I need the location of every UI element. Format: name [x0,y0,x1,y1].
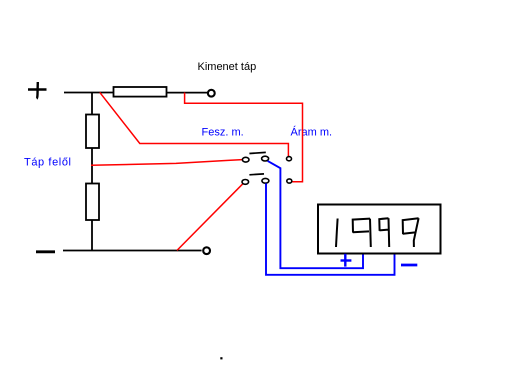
switch S2 lower: lever arm [249,173,264,176]
meter - polarity mark (blue) [401,264,417,267]
minus terminal symbol (-) bottom-left [36,250,55,253]
switch S2 lower: pole contact [242,180,249,185]
wire bottom rail [63,250,202,252]
svg-text:Táp felől: Táp felől [24,156,72,168]
resistor R_top (horizontal) [114,87,167,97]
resistor R1 (upper vertical) [86,115,99,149]
output terminal circle [208,90,215,97]
plus terminal symbol (+) top-left [28,82,47,99]
digit 9 second (hand drawn) [379,218,389,247]
wire resistor to output terminal [167,92,208,94]
switch S1 upper: common contact [262,156,269,161]
bottom terminal circle [203,247,210,254]
switch S1 upper: pole contact [242,157,249,162]
svg-text:Fesz. m.: Fesz. m. [202,127,244,139]
wire top: + rail to resistor [64,92,114,94]
red wire D: bottom rail to lower switch pole (diagonal) [177,184,243,251]
meter display box [318,205,441,254]
red wire B: output wire to current contact via Áram m. [185,93,303,182]
wire R2 to bottom rail [91,220,93,251]
digit 1 (hand drawn) [336,219,338,248]
meter + polarity mark (blue) [341,254,352,267]
svg-text:Áram m.: Áram m. [291,126,333,139]
switch S1 upper: right contact [287,157,292,161]
switch S2 lower: right contact [287,179,292,183]
blue wire F: lower switch common to meter - terminal [266,183,395,274]
switch S1 upper: lever arm [249,152,265,153]
switch S2 lower: common contact [262,178,269,183]
red wire C: supply-side tap to upper switch pole [91,160,242,166]
stray dot bottom centre [220,357,222,359]
digit 9 first (hand drawn) [353,219,371,247]
digit 9 third (hand drawn) [403,218,419,247]
svg-text:Kimenet táp: Kimenet táp [198,61,257,73]
red wire A: top rail to voltage contact of switch [100,92,289,156]
wire junction node at top rail [91,93,93,115]
resistor R2 (lower vertical) [86,184,99,221]
blue wire E: upper switch common to meter + terminal [268,161,363,268]
wire between R1 and R2 [91,148,93,184]
